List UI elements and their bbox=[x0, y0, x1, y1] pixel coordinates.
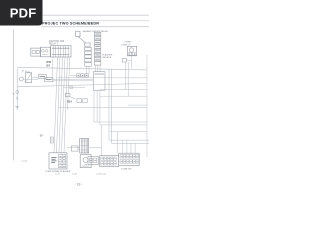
relay box b bbox=[44, 78, 53, 82]
header rule top bbox=[43, 14, 149, 16]
wire: bus2 y85.5 bbox=[17, 83, 147, 86]
lamp side box bbox=[122, 59, 126, 63]
cluster wires to module bbox=[59, 79, 93, 81]
motor component bbox=[80, 155, 91, 168]
module box bbox=[93, 72, 105, 91]
wire lamp pair down bbox=[126, 62, 128, 96]
wire: left drop bbox=[16, 68, 18, 109]
verticals into right block bbox=[123, 140, 135, 153]
switch diagonal bbox=[78, 37, 86, 43]
svg-text:RELAY A: RELAY A bbox=[102, 56, 111, 59]
ground bbox=[15, 106, 19, 109]
svg-text:C-03 C-04: C-03 C-04 bbox=[96, 174, 107, 176]
svg-text:FLASHER: FLASHER bbox=[102, 53, 113, 56]
block inner ladder bbox=[59, 155, 66, 168]
wire: extra drop from box2 bbox=[52, 57, 53, 79]
svg-text:PDF: PDF bbox=[10, 6, 37, 21]
wire cluster chain bbox=[23, 78, 59, 81]
verticals from module bottom bbox=[94, 90, 100, 125]
svg-text:B/Y: B/Y bbox=[40, 135, 44, 137]
header rule mid bbox=[43, 20, 149, 22]
wires to right edge bottom bbox=[109, 140, 149, 143]
relay box a bbox=[38, 75, 46, 79]
frame left border bbox=[12, 29, 14, 160]
inline boxes left of module bbox=[77, 74, 80, 77]
wire: column drops bbox=[87, 65, 101, 74]
bulb symbol bbox=[16, 91, 19, 94]
svg-text:TURN RELAY: TURN RELAY bbox=[94, 30, 108, 33]
left mid module boxes bbox=[77, 99, 82, 103]
bottom hatched connector bbox=[80, 139, 89, 154]
short bus with tick bbox=[63, 86, 85, 88]
frame right border bbox=[146, 55, 148, 157]
tiny box on wire bbox=[72, 146, 79, 151]
svg-text:C-01: C-01 bbox=[55, 174, 61, 176]
small inline connector on bundle bbox=[50, 137, 53, 143]
cell marks column2 bbox=[95, 34, 99, 59]
small block mid bbox=[88, 157, 98, 165]
svg-text:B14: B14 bbox=[67, 101, 72, 104]
hatch box bbox=[25, 73, 31, 83]
horizontal buses right bbox=[57, 77, 148, 79]
wire: bundle drops bbox=[54, 57, 70, 153]
left connector block bbox=[49, 153, 67, 169]
wire: bus1 y68 bbox=[17, 67, 147, 70]
tick marks bbox=[16, 97, 18, 99]
header rule bottom bbox=[41, 26, 149, 28]
svg-text:B/Y: B/Y bbox=[46, 66, 50, 68]
svg-text:C-02: C-02 bbox=[72, 174, 78, 176]
wide connector left part bbox=[100, 156, 119, 167]
bottom pin row bbox=[85, 63, 92, 66]
svg-text:COMB SW: COMB SW bbox=[121, 168, 133, 170]
switch box 1 bbox=[31, 48, 41, 56]
block inner text blob bbox=[51, 158, 56, 163]
hazard feed box bbox=[76, 31, 80, 36]
connector box 3 bbox=[51, 46, 71, 57]
turn lamp box bbox=[127, 46, 136, 55]
svg-text:PROJEC TWO SCHEME/BEDR: PROJEC TWO SCHEME/BEDR bbox=[42, 22, 99, 26]
wire corners right bbox=[94, 122, 147, 125]
switch box 2 bbox=[41, 47, 51, 57]
wire y147.6 bbox=[67, 147, 101, 149]
wire lamp drop bbox=[126, 56, 131, 69]
svg-text:COMB: COMB bbox=[124, 41, 131, 43]
svg-text:1-wire: 1-wire bbox=[21, 160, 28, 163]
wire: pair down center bbox=[109, 70, 112, 144]
connector column 1 bbox=[85, 43, 90, 46]
connector column 2 bbox=[94, 32, 100, 65]
flasher circle bbox=[19, 77, 23, 81]
PDF badge bbox=[0, 0, 43, 26]
wide connector right part bbox=[119, 153, 140, 165]
small box with diagonal bbox=[65, 93, 70, 97]
svg-text:RELAY 2: RELAY 2 bbox=[49, 42, 59, 45]
svg-text:- 18 -: - 18 - bbox=[75, 183, 83, 187]
